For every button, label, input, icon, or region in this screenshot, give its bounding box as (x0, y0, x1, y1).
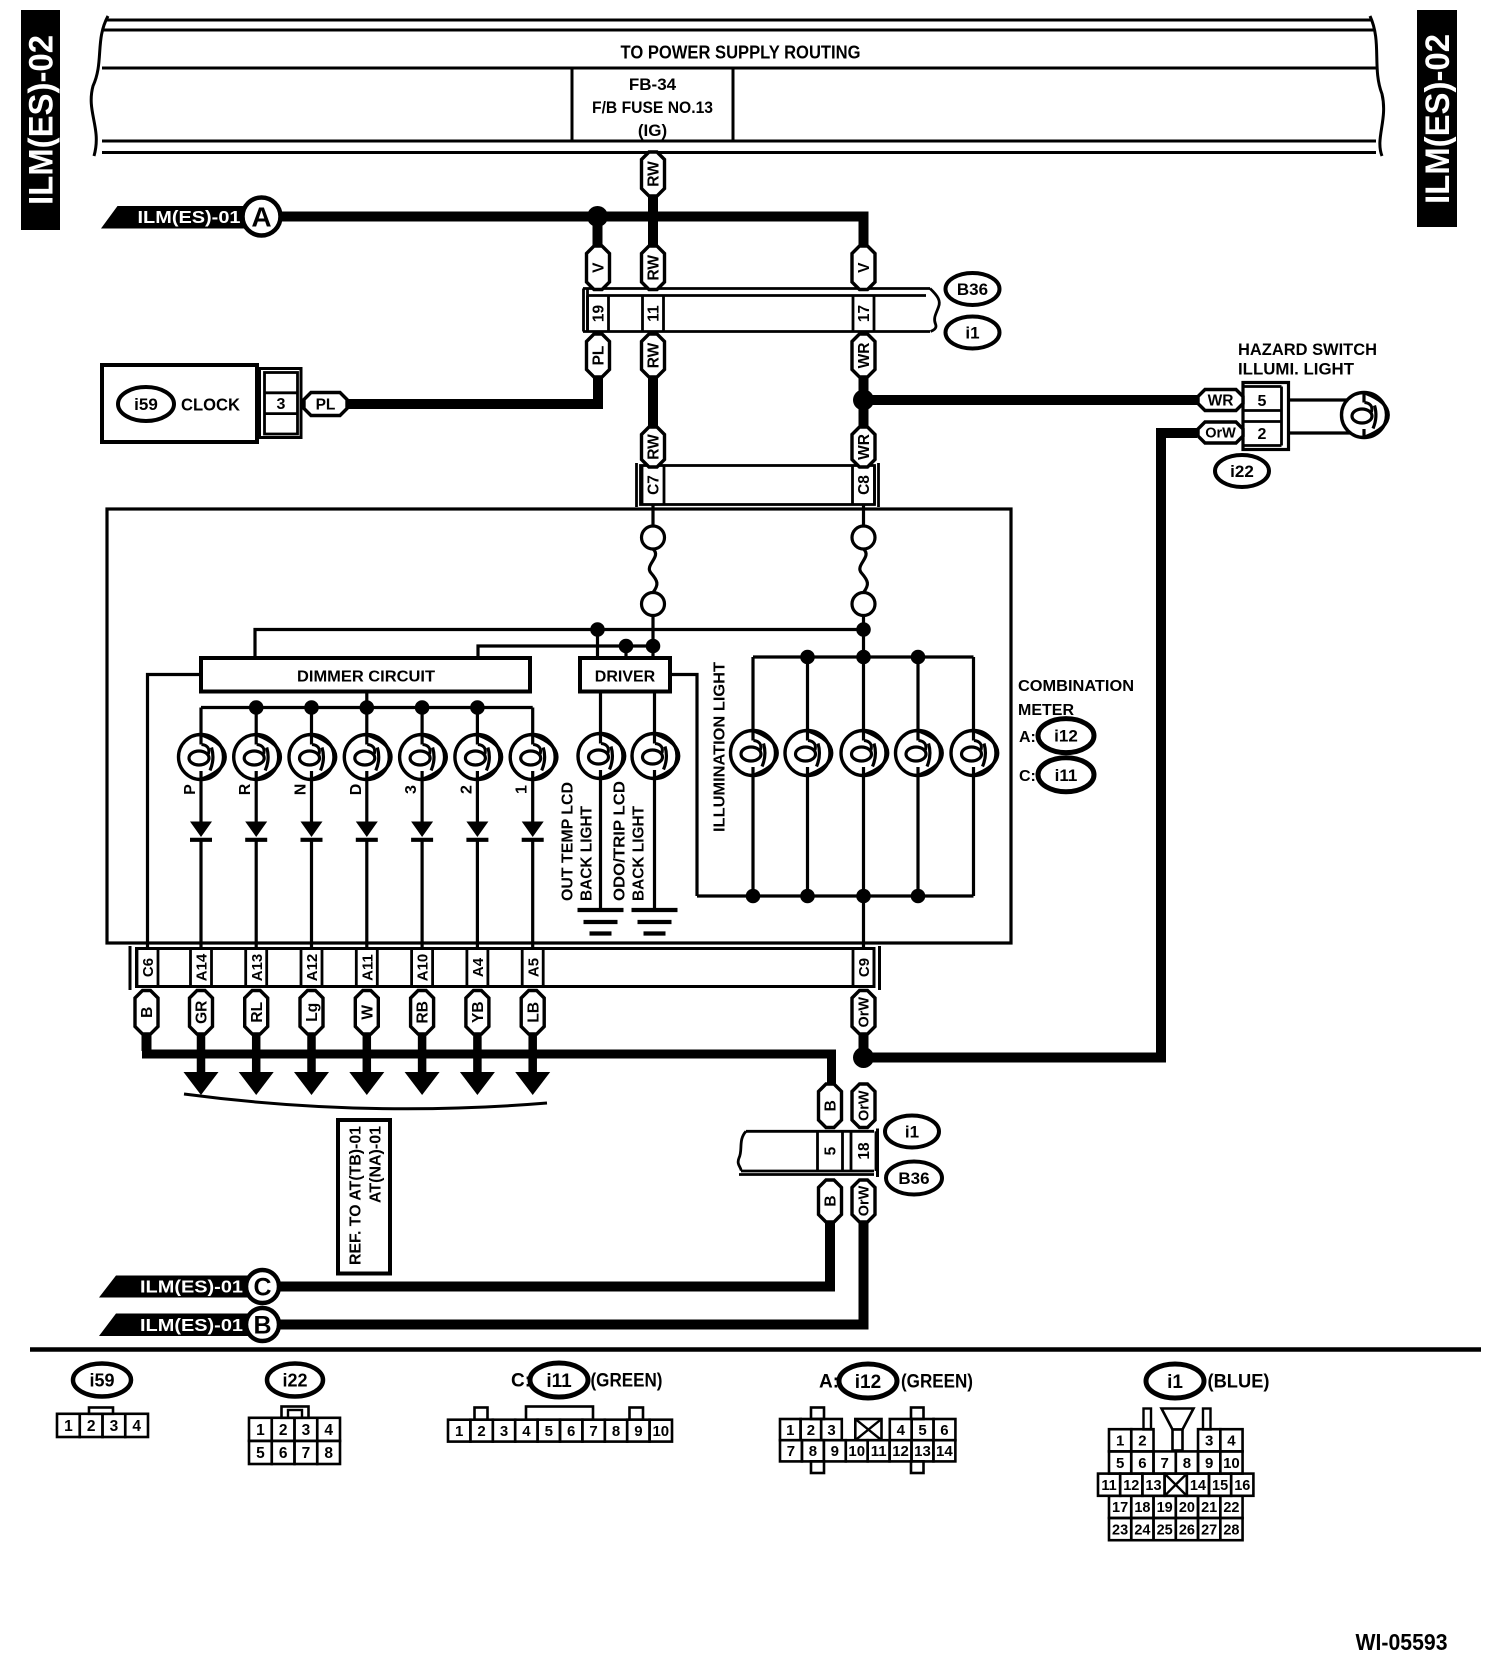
svg-text:RL: RL (249, 1002, 266, 1023)
harness arrows (184, 1034, 551, 1095)
svg-text:B: B (253, 1312, 271, 1340)
wire label WR (above C8) (852, 427, 875, 467)
label OUT TEMP LCD BACK LIGHT (560, 782, 596, 901)
connector row 5 18 (i1/B36) (738, 1129, 877, 1178)
flexible link C7 (649, 549, 657, 593)
wire label B (below row) (819, 1180, 842, 1222)
svg-text:6: 6 (940, 1422, 948, 1439)
lamp illumination 3 (841, 731, 888, 776)
svg-text:7: 7 (787, 1443, 795, 1460)
wire C7 to driver (651, 616, 654, 659)
wire dimmer lamp bus (201, 692, 533, 735)
ground OUT TEMP (578, 910, 624, 934)
svg-text:i22: i22 (1230, 462, 1254, 481)
doc number WI-05593 (1356, 1629, 1448, 1655)
svg-text:COMBINATION: COMBINATION (1018, 678, 1134, 695)
driver box (580, 658, 670, 692)
svg-text:8: 8 (1183, 1455, 1191, 1472)
diode R (245, 822, 267, 840)
svg-text:A:: A: (819, 1372, 839, 1393)
lamp illumination 1 (731, 731, 778, 776)
svg-text:9: 9 (1205, 1455, 1213, 1472)
svg-text:FB-34: FB-34 (629, 75, 677, 94)
svg-text:i11: i11 (546, 1371, 572, 1392)
wire label W (meter outputs) (355, 991, 378, 1035)
svg-text:OrW: OrW (1205, 426, 1236, 442)
svg-text:N: N (293, 784, 310, 796)
wire label Lg (meter outputs) (300, 991, 323, 1035)
svg-text:C: C (253, 1274, 271, 1302)
wire C7 into meter (651, 505, 654, 527)
svg-text:RW: RW (646, 255, 663, 281)
wire label PL (clock) (304, 393, 347, 416)
wire PL to clock (346, 377, 598, 404)
wire label LB (meter outputs) (521, 991, 544, 1035)
connector A: i12 (GREEN) pinout (780, 1364, 973, 1473)
junctions illumination bottom bus (746, 889, 926, 904)
wire label YB (meter outputs) (466, 991, 489, 1035)
connector i59 pinout (57, 1364, 148, 1438)
wire label RB (meter outputs) (411, 991, 434, 1035)
svg-text:DIMMER CIRCUIT: DIMMER CIRCUIT (297, 669, 435, 686)
svg-text:F/B FUSE NO.13: F/B FUSE NO.13 (592, 98, 713, 117)
wires driver outputs (601, 692, 655, 909)
svg-text:18: 18 (1134, 1500, 1150, 1516)
svg-text:C:: C: (511, 1371, 531, 1392)
svg-text:V: V (856, 262, 873, 273)
svg-text:2: 2 (807, 1422, 815, 1439)
wire label WR (hazard) (1198, 390, 1243, 411)
note REF. TO AT(TB)-01 AT(NA)-01 (338, 1120, 390, 1274)
svg-text:WR: WR (856, 343, 873, 369)
svg-text:14: 14 (936, 1443, 953, 1460)
svg-text:10: 10 (1223, 1455, 1240, 1472)
meter bottom connector row C6 A14 A13 A12 A11 A10 A4 A5 C9 (130, 946, 880, 990)
ground ODO/TRIP (632, 910, 678, 934)
svg-text:P: P (182, 784, 199, 795)
flag ILM(ES)-01 C (99, 1270, 279, 1303)
svg-text:HAZARD SWITCH: HAZARD SWITCH (1238, 340, 1377, 359)
svg-text:(GREEN): (GREEN) (901, 1372, 973, 1393)
wire bus ILM(ES)-01 A (280, 217, 864, 247)
hazard connector pins 5 2 (1243, 383, 1289, 450)
connector C: i11 (GREEN) pinout (448, 1363, 672, 1442)
wire label RW (above C7) (642, 427, 665, 467)
svg-text:WR: WR (856, 434, 873, 460)
svg-text:3: 3 (277, 396, 286, 413)
svg-text:W: W (359, 1005, 376, 1020)
svg-text:4: 4 (522, 1423, 531, 1440)
label ILLUMINATION LIGHT (712, 662, 729, 832)
svg-text:PL: PL (591, 346, 608, 366)
wire RW between pills (648, 377, 658, 427)
junctions dimmer bus (249, 700, 485, 715)
wire RW from fuse to connector (648, 196, 658, 246)
wire V stub to pill (593, 211, 603, 246)
svg-text:4: 4 (132, 1418, 141, 1435)
wire label RW (fuse) (642, 152, 665, 196)
wire label OrW (meter outputs) (852, 991, 875, 1035)
svg-text:C9: C9 (856, 958, 873, 977)
svg-text:PL: PL (316, 397, 336, 414)
svg-text:17: 17 (856, 305, 873, 322)
svg-text:WR: WR (1208, 393, 1234, 410)
svg-text:14: 14 (1190, 1478, 1206, 1494)
svg-text:13: 13 (914, 1443, 931, 1460)
svg-text:22: 22 (1223, 1500, 1239, 1516)
lamp illumination 5 (951, 731, 998, 776)
svg-text:19: 19 (1157, 1500, 1173, 1516)
svg-text:OrW: OrW (857, 997, 873, 1028)
svg-text:12: 12 (892, 1443, 909, 1460)
svg-text:20: 20 (1179, 1500, 1195, 1516)
svg-text:26: 26 (1179, 1522, 1195, 1538)
wires hazard lamp (1288, 400, 1351, 433)
svg-text:3: 3 (827, 1422, 835, 1439)
svg-text:7: 7 (589, 1423, 597, 1440)
fuse FB-34 F/B FUSE NO.13 (IG) (592, 75, 713, 140)
lamp 2 (dimmer) (455, 735, 502, 794)
svg-text:2: 2 (87, 1418, 96, 1435)
wire illumination top bus (753, 657, 974, 731)
svg-text:OrW: OrW (857, 1185, 873, 1216)
lamp hazard switch illumination (1342, 393, 1389, 438)
clock connector pin 3 (260, 369, 302, 438)
page banner ILM(ES)-02 left (21, 10, 61, 230)
lamp OUT TEMP LCD back light (578, 734, 625, 779)
svg-text:3: 3 (1205, 1433, 1213, 1450)
diode N (301, 822, 323, 840)
wire C8 into meter (862, 505, 865, 527)
wire C8 down illumination column (862, 616, 865, 731)
svg-text:WI-05593: WI-05593 (1356, 1629, 1448, 1655)
wire B to ILM(ES)-01 B (278, 1222, 864, 1325)
svg-text:B: B (823, 1195, 840, 1206)
svg-text:19: 19 (591, 305, 608, 323)
combination meter box (107, 509, 1011, 943)
svg-text:25: 25 (1157, 1522, 1173, 1538)
wire branch line lower (478, 646, 653, 658)
wire label V (left) (587, 246, 610, 290)
svg-text:6: 6 (1138, 1455, 1146, 1472)
connector i1 (BLUE) pinout (1098, 1364, 1270, 1540)
label COMBINATION METER (1018, 678, 1134, 719)
wire label GR (meter outputs) (190, 991, 213, 1035)
svg-text:5: 5 (256, 1445, 265, 1462)
svg-text:TO POWER SUPPLY ROUTING: TO POWER SUPPLY ROUTING (621, 43, 861, 63)
svg-text:BACK LIGHT: BACK LIGHT (631, 805, 648, 901)
lamp illumination 2 (785, 731, 832, 776)
connector row C7 C8 (637, 463, 879, 507)
lamp R (dimmer) (234, 735, 281, 796)
svg-text:7: 7 (302, 1445, 311, 1462)
svg-text:4: 4 (897, 1422, 906, 1439)
svg-text:(GREEN): (GREEN) (591, 1371, 663, 1392)
connector B36 oval (946, 273, 1000, 305)
connector ref C: i11 (1019, 758, 1094, 792)
svg-text:4: 4 (1227, 1433, 1236, 1450)
svg-text:13: 13 (1145, 1478, 1161, 1494)
svg-text:1: 1 (1116, 1433, 1124, 1450)
connector circles C8 column (852, 526, 875, 616)
svg-text:ILM(ES)-02: ILM(ES)-02 (1419, 34, 1457, 204)
svg-text:2: 2 (279, 1422, 288, 1439)
svg-text:C8: C8 (856, 475, 873, 495)
svg-text:12: 12 (1123, 1478, 1139, 1494)
svg-text:i59: i59 (89, 1370, 114, 1390)
svg-text:5: 5 (1258, 393, 1267, 410)
svg-text:16: 16 (1234, 1478, 1250, 1494)
svg-text:ILM(ES)-01: ILM(ES)-01 (140, 1315, 243, 1335)
svg-text:2: 2 (1258, 426, 1267, 443)
svg-text:C:: C: (1019, 768, 1036, 785)
svg-text:AT(NA)-01: AT(NA)-01 (368, 1126, 385, 1203)
svg-text:15: 15 (1212, 1478, 1228, 1494)
label HAZARD SWITCH ILLUMI. LIGHT (1238, 340, 1377, 379)
svg-text:A4: A4 (470, 957, 487, 977)
svg-text:11: 11 (646, 305, 663, 322)
svg-text:Lg: Lg (304, 1003, 321, 1022)
svg-text:8: 8 (612, 1423, 620, 1440)
svg-text:2: 2 (477, 1423, 485, 1440)
svg-text:A5: A5 (525, 958, 542, 977)
svg-text:i59: i59 (134, 395, 158, 414)
svg-text:YB: YB (470, 1001, 487, 1023)
svg-text:7: 7 (1160, 1455, 1168, 1472)
diode D (356, 822, 378, 840)
svg-text:ILM(ES)-02: ILM(ES)-02 (23, 35, 61, 205)
svg-text:OrW: OrW (857, 1090, 873, 1121)
svg-text:21: 21 (1201, 1500, 1217, 1516)
svg-text:B36: B36 (898, 1169, 929, 1188)
flexible link C8 (860, 549, 868, 593)
svg-text:3: 3 (302, 1422, 311, 1439)
lamp N (dimmer) (289, 735, 336, 796)
svg-text:D: D (348, 784, 365, 796)
connector i1 oval (row) (885, 1116, 939, 1148)
lamp D (dimmer) (344, 735, 391, 796)
svg-text:(BLUE): (BLUE) (1208, 1372, 1270, 1393)
svg-text:REF. TO AT(TB)-01: REF. TO AT(TB)-01 (348, 1126, 365, 1265)
label ODO/TRIP LCD BACK LIGHT (612, 781, 648, 901)
wire label RW (below row) (642, 334, 665, 377)
svg-text:ILM(ES)-01: ILM(ES)-01 (140, 1277, 243, 1297)
lamp illumination 4 (896, 731, 943, 776)
diode P (190, 822, 212, 840)
svg-text:i22: i22 (282, 1370, 307, 1390)
wire label OrW (hazard) (1198, 422, 1243, 443)
flag ILM(ES)-01 A (101, 198, 281, 236)
svg-text:RW: RW (646, 342, 663, 368)
svg-text:V: V (591, 262, 608, 273)
svg-text:1: 1 (256, 1422, 265, 1439)
svg-text:(IG): (IG) (638, 121, 667, 140)
svg-text:9: 9 (634, 1423, 642, 1440)
wire label B (meter outputs) (135, 991, 158, 1035)
connector i59 oval (clock) (118, 387, 240, 421)
svg-text:5: 5 (1116, 1455, 1124, 1472)
svg-text:8: 8 (809, 1443, 817, 1460)
connector row B36/i1 pins 19 11 17 (583, 289, 941, 332)
svg-text:A10: A10 (415, 954, 432, 982)
wire C to ILM(ES)-01 C (278, 1222, 831, 1287)
svg-text:10: 10 (652, 1423, 669, 1440)
svg-text:A:: A: (1019, 729, 1036, 746)
svg-text:2: 2 (458, 785, 475, 794)
wire label WR (below row) (852, 334, 875, 377)
svg-text:11: 11 (1101, 1478, 1116, 1494)
svg-text:ODO/TRIP LCD: ODO/TRIP LCD (612, 781, 629, 901)
svg-text:11: 11 (871, 1443, 887, 1460)
svg-text:9: 9 (831, 1443, 839, 1460)
power supply band (82, 16, 1396, 156)
svg-text:18: 18 (856, 1142, 873, 1160)
svg-text:10: 10 (848, 1443, 865, 1460)
wire label OrW (below row) (852, 1180, 875, 1222)
svg-text:ILLUMINATION LIGHT: ILLUMINATION LIGHT (712, 662, 729, 832)
connector B36 oval (row) (886, 1162, 942, 1195)
lamp ODO/TRIP LCD back light (632, 734, 679, 779)
diode 2 (466, 822, 488, 840)
wire label V (right) (852, 246, 875, 290)
wire driver to illumination bus (670, 675, 697, 897)
junctions branch line upper (590, 622, 871, 637)
wire B harness bus (142, 1034, 832, 1085)
svg-text:A12: A12 (304, 954, 321, 982)
svg-text:ILLUMI. LIGHT: ILLUMI. LIGHT (1238, 360, 1355, 379)
wire WR between pills (859, 377, 869, 427)
svg-text:C7: C7 (646, 475, 663, 495)
wire label PL (587, 334, 610, 377)
wires dimmer lamps to diodes (201, 780, 533, 950)
svg-text:RB: RB (415, 1001, 432, 1023)
svg-text:GR: GR (194, 1001, 211, 1024)
svg-text:i12: i12 (1054, 727, 1078, 746)
svg-text:A11: A11 (359, 954, 376, 981)
svg-text:B36: B36 (957, 280, 988, 299)
junctions branch line lower (619, 639, 661, 654)
wire OrW from hazard switch down (864, 433, 1198, 1058)
svg-text:B: B (139, 1007, 156, 1018)
junction on bus A (587, 206, 608, 227)
svg-text:6: 6 (279, 1445, 288, 1462)
lamp P (dimmer) (179, 735, 226, 795)
clock box (102, 365, 257, 442)
connector i1 oval (946, 317, 1000, 349)
svg-text:i1: i1 (905, 1123, 919, 1142)
svg-text:3: 3 (500, 1423, 508, 1440)
flag ILM(ES)-01 B (99, 1308, 279, 1341)
svg-text:17: 17 (1112, 1500, 1128, 1516)
svg-text:i1: i1 (965, 324, 979, 343)
wire OrW stub below C9 (859, 1034, 869, 1058)
svg-text:B: B (823, 1100, 840, 1111)
svg-text:2: 2 (1138, 1433, 1146, 1450)
svg-text:i12: i12 (855, 1372, 881, 1393)
svg-text:CLOCK: CLOCK (181, 395, 240, 415)
connector i22 oval (1215, 455, 1269, 487)
diode 1 (522, 822, 544, 840)
dimmer circuit box (201, 658, 530, 692)
svg-text:5: 5 (823, 1146, 840, 1155)
connector ref A: i12 (1019, 719, 1094, 753)
separator rule (30, 1347, 1481, 1352)
svg-text:6: 6 (567, 1423, 575, 1440)
harness grouping arc (184, 1094, 547, 1109)
svg-text:24: 24 (1134, 1522, 1150, 1538)
svg-text:i11: i11 (1055, 766, 1078, 785)
svg-text:DRIVER: DRIVER (595, 669, 656, 686)
svg-text:3: 3 (403, 785, 420, 794)
lamp 3 (dimmer) (400, 735, 447, 794)
svg-text:ILM(ES)-01: ILM(ES)-01 (138, 207, 241, 227)
svg-text:C6: C6 (140, 958, 157, 977)
connector circles C7 column (642, 526, 665, 616)
svg-text:1: 1 (455, 1423, 463, 1440)
svg-text:5: 5 (545, 1423, 553, 1440)
svg-text:A13: A13 (249, 954, 266, 982)
label TO POWER SUPPLY ROUTING (621, 43, 861, 63)
connector i22 pinout (249, 1364, 340, 1465)
svg-text:RW: RW (646, 161, 663, 187)
page banner ILM(ES)-02 right (1417, 10, 1457, 227)
svg-text:1: 1 (64, 1418, 73, 1435)
svg-text:LB: LB (525, 1002, 542, 1023)
svg-text:8: 8 (324, 1445, 333, 1462)
wire label OrW (above row) (852, 1084, 875, 1128)
svg-text:5: 5 (918, 1422, 926, 1439)
svg-text:RW: RW (646, 434, 663, 460)
svg-text:i1: i1 (1167, 1372, 1183, 1393)
junction OrW (853, 1047, 874, 1068)
svg-text:27: 27 (1201, 1522, 1217, 1538)
svg-text:A: A (251, 202, 271, 233)
svg-text:BACK LIGHT: BACK LIGHT (579, 805, 596, 901)
wire label RW (mid) (642, 246, 665, 290)
svg-text:1: 1 (514, 785, 531, 794)
svg-text:R: R (237, 783, 254, 795)
wire illumination bottom bus (697, 776, 974, 950)
svg-text:OUT TEMP LCD: OUT TEMP LCD (560, 782, 577, 901)
svg-text:28: 28 (1223, 1522, 1239, 1538)
wire WR to hazard switch (864, 395, 1198, 405)
lamp 1 (dimmer) (510, 735, 557, 794)
svg-text:23: 23 (1112, 1522, 1128, 1538)
svg-text:3: 3 (110, 1418, 119, 1435)
svg-text:1: 1 (786, 1422, 794, 1439)
junction WR (853, 390, 874, 411)
wire dimmer left feed (148, 675, 202, 950)
diode 3 (411, 822, 433, 840)
wire label RL (meter outputs) (245, 991, 268, 1035)
svg-text:4: 4 (324, 1422, 333, 1439)
junctions illumination top bus (800, 650, 925, 665)
wire branch line upper (255, 630, 864, 659)
svg-text:A14: A14 (194, 953, 211, 981)
wire label B (above row) (819, 1084, 842, 1128)
